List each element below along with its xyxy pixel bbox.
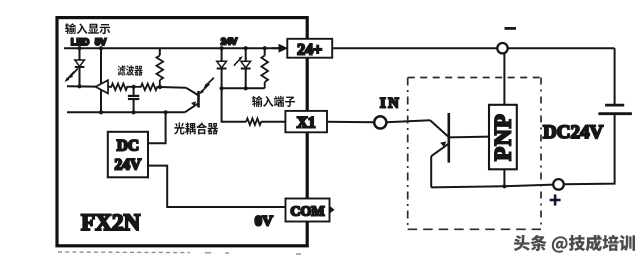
wire X1 to IN terminal [327, 121, 374, 124]
label 输入显示 (input display) [65, 23, 110, 34]
wire DC supply to 0V rail [148, 110, 168, 143]
capacitor C1 filter [128, 85, 139, 115]
svg-text:X1: X1 [297, 115, 316, 132]
label minus sign [505, 27, 517, 30]
diode D1 optocoupler LED [217, 46, 227, 88]
label plus sign [550, 194, 561, 205]
label IN [380, 96, 401, 112]
wire IN to transistor base [387, 120, 449, 137]
svg-text:DC: DC [117, 138, 139, 155]
svg-text:24V: 24V [221, 36, 238, 46]
wire DC supply to COM/0V [148, 166, 286, 207]
op-amp U2 input buffer (left-pointing triangle) [96, 80, 109, 93]
label 0V [255, 213, 274, 229]
label 5V [95, 37, 107, 47]
svg-text:FX2N: FX2N [81, 210, 141, 236]
svg-text:DC24V: DC24V [543, 122, 603, 143]
svg-text:24+: 24+ [297, 41, 322, 58]
label 滤波器 (filter) [117, 65, 142, 75]
svg-text:24V: 24V [115, 157, 143, 174]
svg-text:LED: LED [71, 37, 90, 47]
wire sensor bottom rail [431, 184, 553, 188]
wire: internal 0V rail [67, 111, 185, 113]
label 输入端子 (input terminal) [252, 96, 295, 107]
label 24V rail [221, 36, 238, 46]
D2 indicator arrow [234, 56, 243, 66]
LED LED1 input indicator [75, 46, 85, 86]
wire arrow into 24+ [272, 44, 288, 53]
terminal circle IN [374, 116, 386, 128]
wire: 5V drop to 0V rail [99, 46, 103, 114]
wire filter output to phototransistor [160, 86, 186, 89]
wire PNP bottom to rail [503, 169, 505, 186]
terminal circle minus [497, 43, 507, 53]
label FX2N [81, 210, 141, 236]
wire PNP top to minus terminal [503, 54, 505, 105]
terminal COM [286, 199, 335, 222]
svg-text:IN: IN [380, 96, 401, 112]
label LED [71, 37, 90, 47]
transistor Q2 sensor output [431, 113, 489, 187]
optocoupler light arrows [199, 78, 214, 95]
label DC24V [543, 122, 603, 143]
terminal 24+ [287, 39, 332, 59]
PLC enclosure FX2N [57, 18, 307, 246]
wire battery + to plus terminal [564, 114, 615, 185]
phototransistor Q1 optocoupler output [185, 88, 199, 113]
resistor R1 filter [108, 84, 134, 91]
svg-text:5V: 5V [95, 37, 107, 47]
diode D2 protection [241, 46, 251, 88]
node input network bottom [220, 86, 265, 90]
wire 24+ to - terminal to battery [332, 48, 614, 105]
node LED anode / wire to inverter [67, 84, 96, 88]
label 光耦合器 (optocoupler) [174, 122, 218, 134]
wire: 5V/24V top rail [64, 47, 279, 49]
resistor R5 series input [222, 88, 286, 125]
watermark 头条@技成培训 [514, 235, 635, 253]
power supply box DC24V internal [108, 132, 148, 178]
LED1 light emission arrows [65, 69, 78, 83]
terminal circle plus [553, 179, 564, 190]
sensor outline dashed box [408, 78, 541, 230]
terminal X1 [285, 111, 327, 132]
battery BT1 DC24V [598, 105, 632, 114]
resistor R3 pull-up [157, 48, 164, 89]
svg-text:PNP: PNP [491, 113, 516, 161]
svg-text:0V: 0V [255, 213, 274, 229]
svg-text:COM: COM [290, 205, 324, 220]
resistor R4 input network [261, 46, 268, 88]
resistor R2 filter [134, 84, 161, 91]
sensor block PNP [489, 105, 517, 170]
